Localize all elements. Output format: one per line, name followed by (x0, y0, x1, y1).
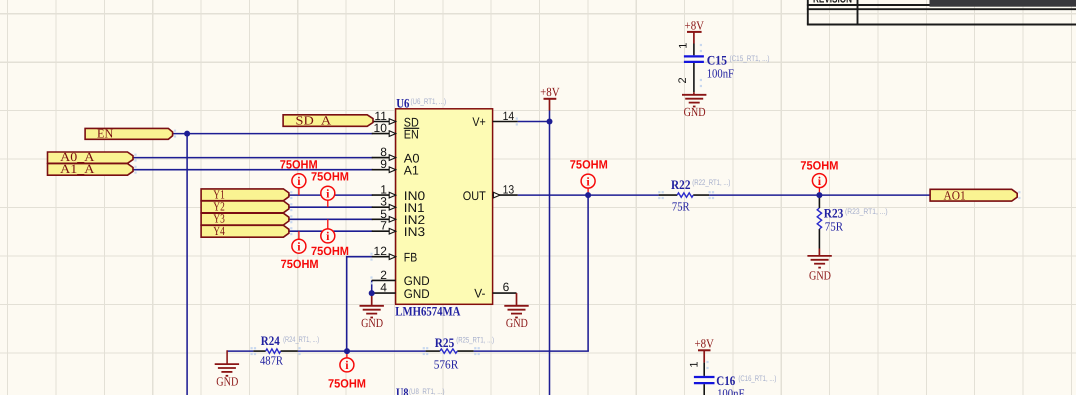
svg-text:+8V: +8V (685, 18, 705, 32)
wire +8V stem above U6 (549, 99, 551, 111)
svg-text:6: 6 (503, 280, 510, 294)
svg-text:IN3: IN3 (404, 225, 425, 239)
svg-text:1: 1 (678, 43, 690, 49)
wire gnd stub left rail end (226, 350, 228, 364)
directive marker M5 on OUT (circled i) (581, 174, 595, 195)
svg-text:100nF: 100nF (707, 67, 734, 81)
svg-text:EN: EN (97, 126, 113, 140)
svg-text:75OHM: 75OHM (311, 170, 349, 184)
svg-text:A1_A: A1_A (60, 162, 94, 176)
wire OUT feedback riser (587, 195, 589, 351)
svg-text:(R25_RT1, ...): (R25_RT1, ...) (456, 335, 494, 344)
svg-text:(C16_RT1, ...): (C16_RT1, ...) (738, 374, 776, 383)
resistor R24 487R (253, 333, 319, 368)
junction EN riser (184, 131, 190, 137)
pin 8 (372, 145, 396, 160)
wire EN vertical riser (186, 134, 188, 395)
ground U6 GND pins (360, 306, 384, 330)
pin 5 (372, 207, 396, 222)
svg-text:U6: U6 (396, 95, 410, 110)
port AO1 (930, 188, 1017, 202)
svg-text:GND: GND (361, 316, 383, 330)
svg-text:2: 2 (677, 77, 689, 83)
svg-text:12: 12 (374, 244, 388, 258)
svg-text:GND: GND (684, 105, 706, 119)
wire bottom rail segments (227, 350, 253, 352)
directive marker M3 on IN2 (circled i) (321, 219, 335, 243)
svg-text:1: 1 (688, 361, 700, 367)
junction rail FB (344, 348, 350, 354)
pin 11 (372, 109, 396, 124)
pin 12 (372, 244, 396, 259)
svg-text:75R: 75R (672, 199, 690, 213)
title block dark band (930, 0, 1076, 7)
pin 14 (493, 109, 518, 123)
pin 3 (372, 195, 396, 210)
junction OUT feedback (585, 192, 591, 198)
svg-text:LMH6574MA: LMH6574MA (395, 304, 461, 319)
svg-text:(C15_RT1, ...): (C15_RT1, ...) (730, 54, 770, 63)
svg-text:487R: 487R (260, 354, 284, 368)
svg-text:+8V: +8V (694, 337, 714, 351)
svg-text:FB: FB (404, 251, 417, 265)
wire V+ pin14 to +8V junction (518, 121, 550, 123)
svg-text:U8: U8 (396, 385, 409, 395)
svg-text:A1: A1 (404, 164, 419, 178)
svg-text:13: 13 (503, 183, 515, 197)
svg-text:GND: GND (506, 316, 528, 330)
pin 2 (372, 268, 396, 282)
svg-text:V+: V+ (472, 115, 485, 129)
svg-text:10: 10 (374, 121, 388, 135)
svg-text:R23: R23 (824, 206, 844, 221)
port Y1 (201, 187, 289, 201)
svg-text:(U6_RT1, ...): (U6_RT1, ...) (411, 97, 447, 106)
wire FB net vertical + horizontal (347, 257, 373, 351)
wire A0_A to pin 8 (133, 157, 373, 159)
pin 6 (493, 280, 517, 294)
svg-text:75OHM: 75OHM (570, 157, 608, 171)
wire pin2 to pin4 corner (371, 280, 373, 293)
power +8V above U6 V+ (540, 85, 560, 99)
wire gnd stem pins 2/4 (371, 293, 373, 306)
svg-text:SD_A: SD_A (296, 113, 332, 127)
op-amp mux U6 LMH6574MA body (396, 109, 493, 304)
directive marker M1 on IN0 (circled i) (292, 174, 306, 195)
wire Y2 to pin 3 (289, 206, 373, 208)
wire Y4 to pin 7 (289, 230, 373, 232)
wire OUT net left segment (518, 194, 659, 196)
svg-text:V-: V- (474, 287, 485, 301)
svg-text:C15: C15 (707, 53, 728, 68)
directive marker M6 on AO1 (circled i) (812, 174, 826, 196)
svg-text:9: 9 (380, 157, 387, 171)
directive marker M4 on IN3 (circled i) (292, 231, 306, 253)
svg-text:R24: R24 (261, 333, 280, 348)
pin 13 OUT (493, 183, 518, 198)
port Y3 (201, 212, 289, 226)
junction V+ +8V (547, 119, 553, 125)
wire OUT net right segment to AO1 (709, 194, 930, 196)
svg-text:4: 4 (380, 281, 387, 295)
wire +8V vertical down (crosses OUT and rail) (549, 111, 551, 395)
ground below R23 (807, 256, 831, 283)
pin 9 (372, 157, 396, 172)
EN active-low overbar (404, 127, 420, 129)
svg-text:REVISION: REVISION (813, 0, 852, 5)
wire gnd stem V- (516, 293, 518, 306)
wire A1_A to pin 9 (133, 169, 373, 171)
svg-text:GND: GND (216, 374, 238, 388)
wire Y3 to pin 5 (289, 218, 373, 220)
pin 1 (372, 183, 396, 198)
ground rail left (215, 364, 239, 388)
directive marker M2 on IN1 (circled i) (321, 186, 335, 207)
ground U6 V- (504, 306, 528, 330)
port A1_A (48, 162, 134, 176)
svg-text:7: 7 (380, 219, 387, 233)
svg-text:GND: GND (809, 269, 831, 283)
capacitor C15 100nF (677, 32, 770, 95)
port EN (85, 126, 173, 140)
port Y4 (201, 224, 289, 238)
resistor R25 576R (426, 335, 495, 372)
port SD_A (283, 113, 373, 127)
svg-text:EN: EN (404, 127, 419, 141)
svg-text:R22: R22 (671, 177, 691, 192)
port A0_A (48, 150, 134, 164)
revision table (807, 0, 1076, 25)
wire Y1 to pin 1 (289, 194, 373, 196)
pin 7 (372, 219, 396, 234)
svg-text:(R24_RT1, ...): (R24_RT1, ...) (283, 335, 319, 344)
svg-text:(R22_RT1, ...): (R22_RT1, ...) (692, 178, 730, 187)
svg-text:Y4: Y4 (213, 224, 225, 238)
svg-text:AO1: AO1 (944, 188, 966, 202)
junction GND pins (369, 290, 375, 296)
junction R23 tap (816, 192, 822, 198)
resistor R22 75R (659, 177, 731, 213)
svg-text:75OHM: 75OHM (800, 159, 838, 173)
svg-text:(R23_RT1, ...): (R23_RT1, ...) (845, 207, 888, 216)
svg-text:75OHM: 75OHM (328, 376, 366, 390)
capacitor C16 100nF (688, 350, 776, 395)
resistor R23 75R (817, 195, 888, 256)
wire EN port to pin 10 (173, 133, 373, 135)
svg-text:(U8_RT1, ...): (U8_RT1, ...) (409, 387, 445, 395)
svg-text:576R: 576R (434, 358, 459, 372)
directive marker M7 on FB rail (circled i) (340, 351, 354, 372)
svg-text:14: 14 (503, 109, 515, 123)
svg-text:+8V: +8V (540, 85, 560, 99)
pin 4 (372, 281, 396, 295)
svg-text:75R: 75R (825, 220, 844, 234)
ground below C15 (682, 95, 706, 119)
svg-text:100nF: 100nF (717, 387, 744, 395)
svg-text:75OHM: 75OHM (281, 257, 319, 271)
svg-text:GND: GND (404, 287, 430, 301)
port Y2 (201, 200, 289, 214)
power +8V above C16 (694, 337, 714, 351)
svg-text:OUT: OUT (463, 189, 486, 203)
power +8V above C15 (685, 18, 705, 32)
pin 10 (372, 121, 396, 136)
svg-text:R25: R25 (435, 335, 455, 350)
